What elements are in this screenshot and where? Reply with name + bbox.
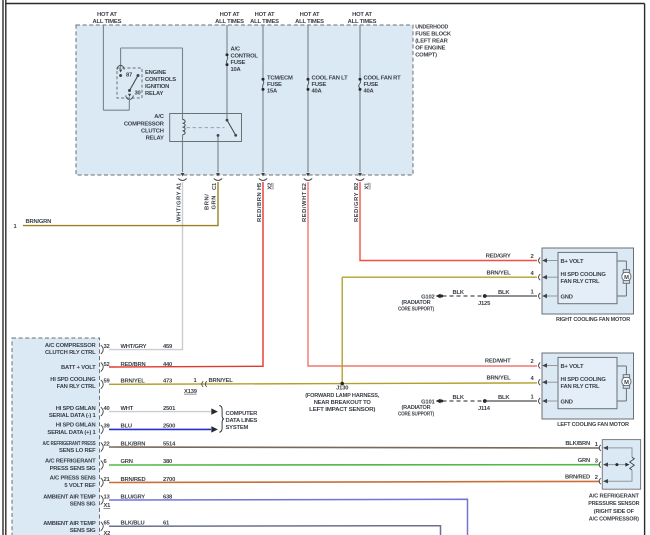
svg-text:440: 440 xyxy=(163,362,172,368)
svg-text:ALL TIMES: ALL TIMES xyxy=(295,19,324,25)
svg-text:A/C: A/C xyxy=(154,114,164,120)
svg-text:B2: B2 xyxy=(354,183,360,190)
svg-text:2501: 2501 xyxy=(163,406,176,412)
svg-text:BRN/YEL: BRN/YEL xyxy=(121,379,146,385)
svg-text:HI SPD COOLING: HI SPD COOLING xyxy=(50,377,96,383)
svg-text:HI SPD GMLAN: HI SPD GMLAN xyxy=(56,406,96,412)
svg-text:IGNITION: IGNITION xyxy=(145,84,169,90)
svg-text:HOT AT: HOT AT xyxy=(352,12,372,18)
svg-text:FAN RLY CTRL: FAN RLY CTRL xyxy=(561,279,600,285)
svg-text:A/C COMPRESSOR: A/C COMPRESSOR xyxy=(45,343,97,349)
svg-text:AMBIENT AIR TEMP: AMBIENT AIR TEMP xyxy=(43,494,96,500)
svg-text:SENS LO REF: SENS LO REF xyxy=(59,448,96,454)
svg-text:FUSE: FUSE xyxy=(231,60,246,66)
svg-text:39: 39 xyxy=(104,423,111,429)
svg-text:X139: X139 xyxy=(184,389,198,395)
svg-text:COOL FAN LT: COOL FAN LT xyxy=(312,75,349,81)
svg-text:ALL TIMES: ALL TIMES xyxy=(215,19,244,25)
svg-text:638: 638 xyxy=(163,495,173,501)
svg-text:SYSTEM: SYSTEM xyxy=(226,425,249,431)
svg-text:BRN/RED: BRN/RED xyxy=(121,477,146,483)
svg-text:X2: X2 xyxy=(104,531,111,535)
svg-text:SERIAL DATA (+) 1: SERIAL DATA (+) 1 xyxy=(47,430,96,436)
svg-text:473: 473 xyxy=(163,379,173,385)
svg-text:BRN/GRN: BRN/GRN xyxy=(26,219,52,225)
svg-text:COMPRESSOR: COMPRESSOR xyxy=(124,122,165,128)
svg-text:RED/GRY: RED/GRY xyxy=(486,254,511,260)
svg-text:2: 2 xyxy=(595,475,598,481)
svg-text:BLU: BLU xyxy=(121,423,132,429)
svg-text:380: 380 xyxy=(163,459,172,465)
svg-text:(FORWARD LAMP HARNESS,: (FORWARD LAMP HARNESS, xyxy=(305,393,380,399)
svg-text:59: 59 xyxy=(104,379,111,385)
svg-text:BRN/YEL: BRN/YEL xyxy=(209,378,234,384)
svg-text:10A: 10A xyxy=(231,67,242,73)
svg-text:FAN RLY CTRL: FAN RLY CTRL xyxy=(57,384,96,390)
svg-text:HI SPD COOLING: HI SPD COOLING xyxy=(561,377,607,383)
svg-text:CLUTCH RLY CTRL: CLUTCH RLY CTRL xyxy=(45,350,96,356)
svg-text:15A: 15A xyxy=(267,89,278,95)
svg-text:SENS SIG: SENS SIG xyxy=(70,501,96,507)
svg-text:BLK: BLK xyxy=(453,395,465,401)
svg-text:13: 13 xyxy=(104,495,111,501)
svg-text:CONTROL: CONTROL xyxy=(231,53,259,59)
svg-text:J125: J125 xyxy=(478,301,491,307)
svg-text:BLK: BLK xyxy=(498,395,510,401)
svg-text:BRN/RED: BRN/RED xyxy=(565,475,590,481)
svg-text:GRN: GRN xyxy=(578,458,590,464)
svg-text:RIGHT COOLING FAN MOTOR: RIGHT COOLING FAN MOTOR xyxy=(556,317,631,323)
svg-text:40A: 40A xyxy=(364,89,375,95)
svg-text:NEAR BREAKOUT TO: NEAR BREAKOUT TO xyxy=(314,400,372,406)
svg-text:2700: 2700 xyxy=(163,477,175,483)
svg-text:GRN: GRN xyxy=(121,459,133,465)
svg-text:HI SPD COOLING: HI SPD COOLING xyxy=(561,272,607,278)
svg-text:M: M xyxy=(624,275,629,281)
svg-text:HI SPD GMLAN: HI SPD GMLAN xyxy=(56,423,96,429)
svg-text:ALL TIMES: ALL TIMES xyxy=(93,19,122,25)
svg-text:H5: H5 xyxy=(257,182,263,190)
svg-text:J130: J130 xyxy=(336,386,348,392)
svg-text:BRN/YEL: BRN/YEL xyxy=(486,375,511,381)
svg-text:(RIGHT SIDE OF: (RIGHT SIDE OF xyxy=(594,509,635,515)
svg-text:52: 52 xyxy=(104,362,110,368)
svg-text:BLU/GRY: BLU/GRY xyxy=(121,495,146,501)
svg-text:459: 459 xyxy=(163,344,173,350)
svg-text:ALL TIMES: ALL TIMES xyxy=(348,19,377,25)
svg-text:ENGINE: ENGINE xyxy=(145,70,166,76)
svg-text:WHT/GRY: WHT/GRY xyxy=(177,191,183,222)
svg-text:WHT: WHT xyxy=(121,406,134,412)
svg-text:RED/GRY: RED/GRY xyxy=(354,192,360,222)
svg-text:RELAY: RELAY xyxy=(146,135,164,141)
svg-text:(RADIATOR: (RADIATOR xyxy=(402,405,432,411)
svg-text:CONTROLS: CONTROLS xyxy=(145,77,176,83)
svg-text:HOT AT: HOT AT xyxy=(97,12,117,18)
svg-text:FUSE: FUSE xyxy=(267,82,282,88)
svg-text:2: 2 xyxy=(530,254,533,260)
svg-text:BRN/YEL: BRN/YEL xyxy=(486,270,511,276)
svg-text:GND: GND xyxy=(561,294,573,300)
svg-text:LEFT COOLING FAN MOTOR: LEFT COOLING FAN MOTOR xyxy=(557,422,629,428)
svg-text:PRESS SENS SIG: PRESS SENS SIG xyxy=(50,466,97,472)
svg-text:32: 32 xyxy=(104,344,110,350)
svg-text:PRESSURE SENSOR: PRESSURE SENSOR xyxy=(588,501,640,507)
svg-text:HOT AT: HOT AT xyxy=(300,12,320,18)
svg-text:61: 61 xyxy=(163,521,170,527)
svg-text:BRN/: BRN/ xyxy=(205,194,211,210)
svg-text:2500: 2500 xyxy=(163,423,175,429)
svg-text:DATA LINES: DATA LINES xyxy=(226,418,258,424)
svg-text:HOT AT: HOT AT xyxy=(255,12,275,18)
svg-text:5514: 5514 xyxy=(163,441,176,447)
svg-text:40: 40 xyxy=(104,406,110,412)
svg-text:OF ENGINE: OF ENGINE xyxy=(415,46,445,52)
svg-text:BLK/BLU: BLK/BLU xyxy=(121,521,145,527)
svg-text:A/C PRESS SENS: A/C PRESS SENS xyxy=(50,476,96,482)
svg-text:A/C COMPRESSOR): A/C COMPRESSOR) xyxy=(589,517,639,523)
svg-text:M: M xyxy=(624,380,629,386)
svg-text:C1: C1 xyxy=(212,182,218,190)
svg-text:J114: J114 xyxy=(478,406,491,412)
svg-text:(RADIATOR: (RADIATOR xyxy=(402,300,432,306)
svg-text:TCM/ECM: TCM/ECM xyxy=(267,75,293,81)
svg-text:BLK/BRN: BLK/BRN xyxy=(565,441,590,447)
svg-text:CLUTCH: CLUTCH xyxy=(141,129,164,135)
svg-text:SENS SIG: SENS SIG xyxy=(70,528,96,534)
svg-text:(LEFT REAR: (LEFT REAR xyxy=(415,39,448,45)
svg-text:RELAY: RELAY xyxy=(145,91,163,97)
svg-text:21: 21 xyxy=(104,477,111,483)
svg-text:5 VOLT REF: 5 VOLT REF xyxy=(64,483,96,489)
svg-text:RED/BRN: RED/BRN xyxy=(121,362,146,368)
svg-text:BATT + VOLT: BATT + VOLT xyxy=(61,365,96,371)
svg-text:RED/WHT: RED/WHT xyxy=(485,359,511,365)
svg-text:COMPT): COMPT) xyxy=(415,53,437,59)
svg-text:FUSE BLOCK: FUSE BLOCK xyxy=(415,32,452,38)
svg-text:GRN: GRN xyxy=(212,195,218,210)
svg-text:A/C REFRIGERANT PRESS: A/C REFRIGERANT PRESS xyxy=(43,441,96,447)
svg-text:65: 65 xyxy=(104,521,111,527)
svg-text:E2: E2 xyxy=(302,183,308,190)
svg-text:CORE SUPPORT): CORE SUPPORT) xyxy=(398,411,434,417)
svg-text:X2: X2 xyxy=(268,183,274,190)
svg-text:ALL TIMES: ALL TIMES xyxy=(250,19,279,25)
svg-text:AMBIENT AIR TEMP: AMBIENT AIR TEMP xyxy=(43,521,96,527)
svg-text:WHT/GRY: WHT/GRY xyxy=(121,344,147,350)
svg-text:CORE SUPPORT): CORE SUPPORT) xyxy=(398,306,434,312)
svg-text:FUSE: FUSE xyxy=(312,82,327,88)
svg-text:FAN RLY CTRL: FAN RLY CTRL xyxy=(561,384,600,390)
svg-text:BLK/BRN: BLK/BRN xyxy=(121,441,146,447)
svg-text:30: 30 xyxy=(135,90,141,96)
svg-text:UNDERHOOD: UNDERHOOD xyxy=(415,25,448,31)
svg-text:A/C REFRIGERANT: A/C REFRIGERANT xyxy=(589,493,640,499)
svg-text:2: 2 xyxy=(530,359,533,365)
svg-text:LEFT IMPACT SENSOR): LEFT IMPACT SENSOR) xyxy=(309,407,375,413)
svg-text:87: 87 xyxy=(126,72,132,78)
svg-text:A/C REFRIGERANT: A/C REFRIGERANT xyxy=(45,459,96,465)
svg-text:B+ VOLT: B+ VOLT xyxy=(561,259,584,265)
svg-text:HOT AT: HOT AT xyxy=(220,12,240,18)
svg-text:A/C: A/C xyxy=(231,47,241,53)
svg-text:A1: A1 xyxy=(177,182,183,190)
svg-text:BLK: BLK xyxy=(498,290,510,296)
svg-text:BLK: BLK xyxy=(453,290,465,296)
svg-text:SERIAL DATA (-) 1: SERIAL DATA (-) 1 xyxy=(49,413,97,419)
svg-text:GND: GND xyxy=(561,399,573,405)
svg-text:B+ VOLT: B+ VOLT xyxy=(561,364,584,370)
svg-text:RED/BRN: RED/BRN xyxy=(257,192,263,222)
svg-text:RED/WHT: RED/WHT xyxy=(302,191,308,222)
svg-text:X1: X1 xyxy=(365,182,371,190)
svg-text:COMPUTER: COMPUTER xyxy=(226,411,259,417)
svg-text:FUSE: FUSE xyxy=(364,82,379,88)
svg-text:COOL FAN RT: COOL FAN RT xyxy=(364,75,402,81)
svg-text:X1: X1 xyxy=(104,503,112,509)
svg-text:40A: 40A xyxy=(312,89,323,95)
svg-text:22: 22 xyxy=(104,441,110,447)
